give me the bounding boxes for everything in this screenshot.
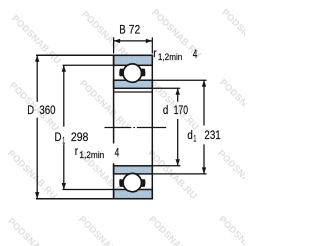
svg-text:298: 298 — [71, 130, 89, 144]
svg-text:72: 72 — [129, 22, 140, 36]
svg-text:231: 231 — [204, 128, 220, 142]
svg-text:4: 4 — [193, 47, 198, 61]
svg-text:170: 170 — [174, 103, 188, 117]
svg-text:D: D — [55, 130, 62, 144]
svg-text:1: 1 — [62, 135, 65, 145]
svg-text:D: D — [27, 103, 34, 117]
svg-text:r: r — [153, 46, 156, 60]
svg-text:d: d — [187, 128, 192, 142]
svg-text:4: 4 — [115, 146, 120, 160]
svg-text:360: 360 — [39, 103, 55, 117]
svg-text:1,2min: 1,2min — [158, 52, 182, 62]
svg-text:1: 1 — [194, 134, 197, 144]
svg-text:d: d — [163, 103, 168, 117]
svg-text:r: r — [75, 144, 78, 158]
svg-text:B: B — [119, 22, 125, 36]
svg-text:1,2min: 1,2min — [79, 150, 104, 160]
